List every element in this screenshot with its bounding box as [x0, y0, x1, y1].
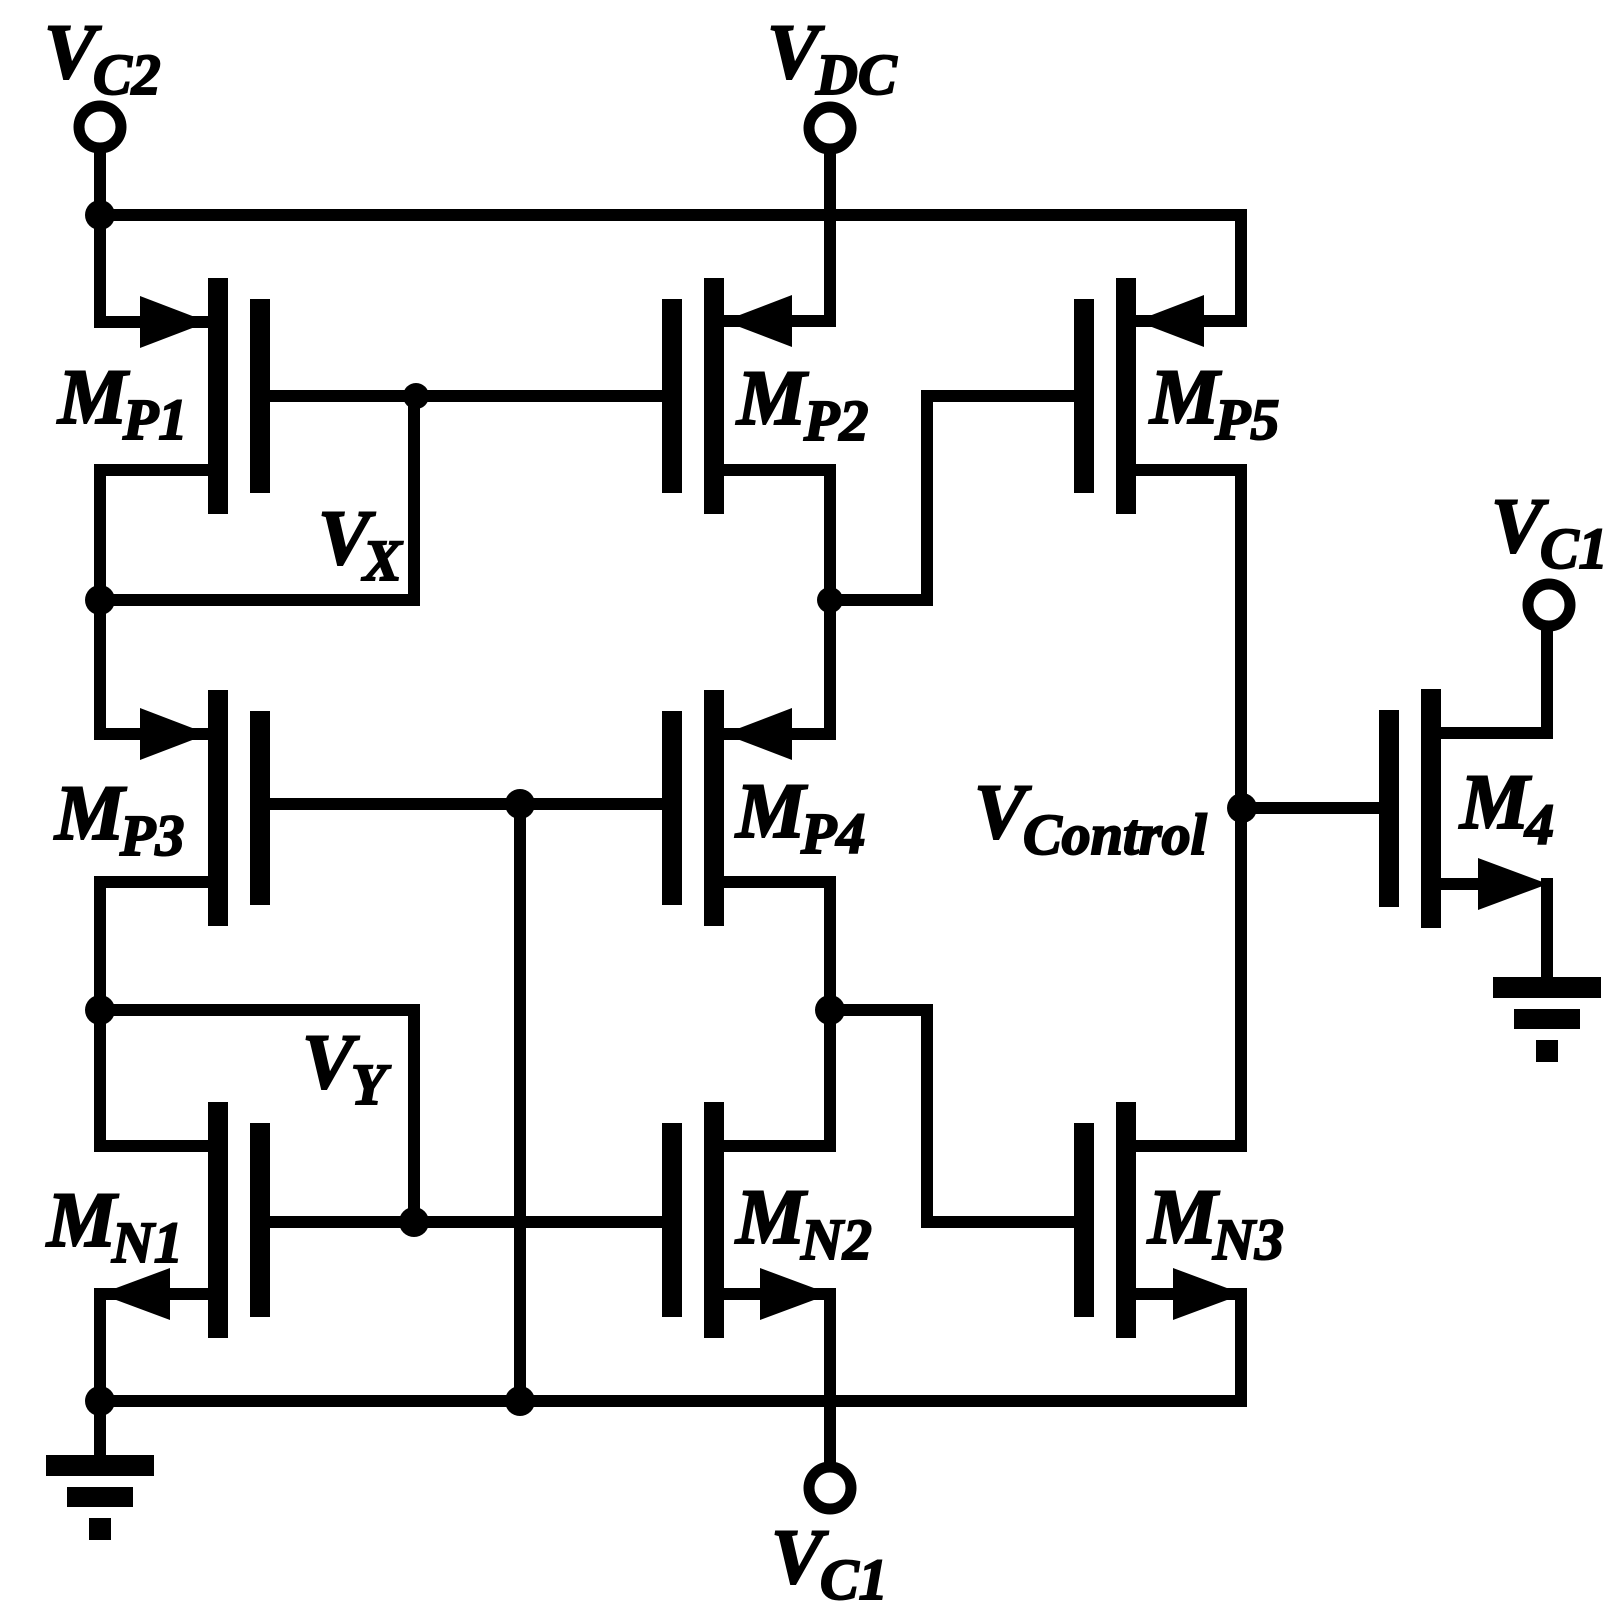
- arrow MN2 source-arrow (NMOS): [760, 1268, 830, 1320]
- wire left column: rail to MP1 drain: [94, 209, 106, 328]
- wire left column: MP1 source to VX node: [94, 464, 106, 606]
- wire right column: rail to MP5 drain: [1235, 209, 1247, 327]
- transistor MN3 gate bar: [1074, 1123, 1094, 1317]
- svg-text:M: M: [1146, 1173, 1220, 1260]
- transistor MN1 drain line: [94, 1140, 208, 1152]
- arrow MN1 source-arrow (NMOS): [100, 1268, 170, 1320]
- arrow M4 source-arrow (NMOS): [1478, 858, 1548, 910]
- svg-text:Y: Y: [351, 1052, 391, 1117]
- transistor MP3 gate bar: [250, 711, 270, 905]
- transistor MP5 source line: [1136, 464, 1247, 476]
- transistor MP2 source line: [724, 464, 836, 476]
- ground main ground: [46, 1455, 154, 1540]
- transistor MP4 drain line: [724, 728, 836, 740]
- transistor MN2 channel bar: [704, 1102, 724, 1338]
- node junction bottom rail/ground: [85, 1386, 115, 1416]
- transistor MN3 drain line: [1136, 1140, 1247, 1152]
- node junction VC2/rail: [85, 200, 115, 230]
- transistor MN1 channel bar: [208, 1102, 228, 1338]
- wire left column: MP3 source to VY node: [94, 876, 106, 1016]
- svg-text:N1: N1: [111, 1210, 183, 1275]
- svg-text:M: M: [56, 353, 130, 440]
- wire MP1 gate to VX node: [270, 390, 420, 402]
- wire left column: VY node to MN1 drain: [94, 1004, 106, 1152]
- transistor MP4 channel bar: [704, 690, 724, 926]
- node node VControl: [1227, 793, 1257, 823]
- svg-text:M: M: [45, 1176, 119, 1263]
- arrow MP1 source-arrow (PMOS): [140, 296, 208, 348]
- transistor MP1 gate bar: [250, 299, 270, 493]
- svg-text:Control: Control: [1023, 802, 1208, 867]
- wire VY horizontal: [94, 1004, 420, 1016]
- wire MN3 gate riser: [921, 1004, 933, 1228]
- node node gate MP3/MP4: [505, 789, 535, 819]
- wire VX horizontal to left column: [94, 594, 420, 606]
- transistor MP1 source line: [94, 464, 208, 476]
- transistor M4 channel bar: [1421, 689, 1441, 928]
- node A (MP2 source-MP4 drain): [817, 587, 843, 613]
- svg-text:DC: DC: [815, 42, 898, 107]
- wire left column: MN1 source to bottom rail: [94, 1288, 106, 1407]
- transistor MN3 source line: [1136, 1288, 1241, 1300]
- wire M4 gate to VControl node: [1235, 802, 1379, 814]
- transistor MP1 drain line: [94, 316, 208, 328]
- transistor MP2 channel bar: [704, 278, 724, 514]
- wire MP5 gate riser: [921, 390, 933, 606]
- arrow MP4 source-arrow (PMOS): [724, 708, 792, 760]
- transistor MP5 gate bar: [1074, 299, 1094, 493]
- svg-text:M: M: [1458, 758, 1532, 845]
- wire top supply rail VC2: [94, 209, 1247, 221]
- terminal VC1 bottom: [809, 1467, 851, 1509]
- transistor MP2 gate bar: [662, 299, 682, 493]
- transistor MN2 gate bar: [662, 1123, 682, 1317]
- svg-text:C2: C2: [93, 42, 161, 107]
- wire MN3 gate wire: [921, 1216, 1074, 1228]
- transistor M4 gate bar: [1379, 710, 1399, 907]
- svg-text:M: M: [735, 354, 809, 441]
- transistor MP4 gate bar: [662, 711, 682, 905]
- node node B (MP4 source-MN2 drain): [815, 995, 845, 1025]
- wire left column: bottom rail to ground: [94, 1395, 106, 1461]
- transistor MP3 drain line: [94, 728, 208, 740]
- wire gate node to bottom rail: [514, 798, 526, 1407]
- node VX on gate line: [403, 383, 429, 409]
- transistor MP5 channel bar: [1116, 278, 1136, 514]
- wire M4 drain to VC1 terminal: [1541, 627, 1553, 739]
- node node VY/left column: [85, 995, 115, 1025]
- transistor MP1 channel bar: [208, 278, 228, 514]
- svg-text:C1: C1: [820, 1547, 888, 1612]
- transistor MP3 source line: [94, 876, 208, 888]
- wire MN1 gate line: [270, 1216, 662, 1228]
- arrow MP3 source-arrow (PMOS): [140, 708, 208, 760]
- transistor MP4 source line: [724, 876, 836, 888]
- terminal VC2: [79, 106, 121, 148]
- node node VX/left column: [85, 585, 115, 615]
- svg-text:P1: P1: [122, 387, 187, 452]
- svg-text:P5: P5: [1214, 387, 1279, 452]
- ground M4 ground: [1493, 977, 1601, 1062]
- terminal VDC: [809, 107, 851, 149]
- wire MP5 gate wire: [921, 390, 1074, 402]
- node junction bottom rail/gate node wire: [505, 1386, 535, 1416]
- wire VDC stem down to MP2 drain: [824, 146, 836, 327]
- wire mid column: MN2 source to VC1 terminal: [824, 1288, 836, 1467]
- wire VY branch vertical to MN1 gate: [408, 1004, 420, 1228]
- svg-text:P4: P4: [800, 801, 865, 866]
- svg-text:N2: N2: [800, 1207, 872, 1272]
- wire VX branch vertical: [408, 390, 420, 606]
- transistor MN1 gate bar: [250, 1123, 270, 1317]
- wire M4 source to ground: [1541, 878, 1553, 977]
- terminal VC1 top right: [1528, 584, 1570, 626]
- wire right column: MN3 source to bottom rail: [1235, 1288, 1247, 1407]
- transistor M4 source line: [1441, 878, 1478, 890]
- svg-text:P3: P3: [119, 803, 184, 868]
- transistor MN3 channel bar: [1116, 1102, 1136, 1338]
- node node VY on MN1 gate line: [399, 1207, 429, 1237]
- svg-text:C1: C1: [1540, 516, 1608, 581]
- arrow MP5 source-arrow (PMOS): [1136, 295, 1204, 347]
- transistor M4 drain line: [1441, 727, 1553, 739]
- transistor MN2 drain line: [724, 1140, 836, 1152]
- svg-text:M: M: [734, 1173, 808, 1260]
- wire bottom rail: [94, 1395, 1247, 1407]
- svg-text:P2: P2: [803, 388, 868, 453]
- transistor MP3 channel bar: [208, 690, 228, 926]
- wire MP3/MP4 gate line: [270, 798, 662, 810]
- wire node A to MP5 gate riser: [824, 594, 933, 606]
- wire mid column: node B to MN2 drain: [824, 1004, 836, 1152]
- wire MP2 gate to VX node: [408, 390, 662, 402]
- wire mid column: MP4 source to node B: [824, 876, 836, 1016]
- svg-text:M: M: [734, 767, 808, 854]
- wire mid column: MP2 source to node A: [824, 464, 836, 606]
- wire VC2 stem: [94, 145, 106, 221]
- wire mid column: node A to MP4 drain: [824, 594, 836, 740]
- wire node B to MN3 gate riser: [824, 1004, 933, 1016]
- svg-text:X: X: [361, 528, 403, 593]
- svg-text:4: 4: [1524, 792, 1554, 857]
- transistor MN2 source line: [724, 1288, 830, 1300]
- arrow MP2 source-arrow (PMOS): [724, 295, 792, 347]
- arrow MN3 source-arrow (NMOS): [1173, 1268, 1243, 1320]
- svg-text:M: M: [53, 769, 127, 856]
- wire left column: VX node to MP3 drain: [94, 594, 106, 740]
- transistor MP5 drain line: [1136, 315, 1247, 327]
- svg-text:M: M: [1148, 353, 1222, 440]
- transistor MN1 source line: [100, 1288, 208, 1300]
- transistor MP2 drain line: [724, 315, 836, 327]
- wire right column: MP5 source through VControl to MN3 drain: [1235, 464, 1247, 1152]
- svg-text:N3: N3: [1212, 1207, 1284, 1272]
